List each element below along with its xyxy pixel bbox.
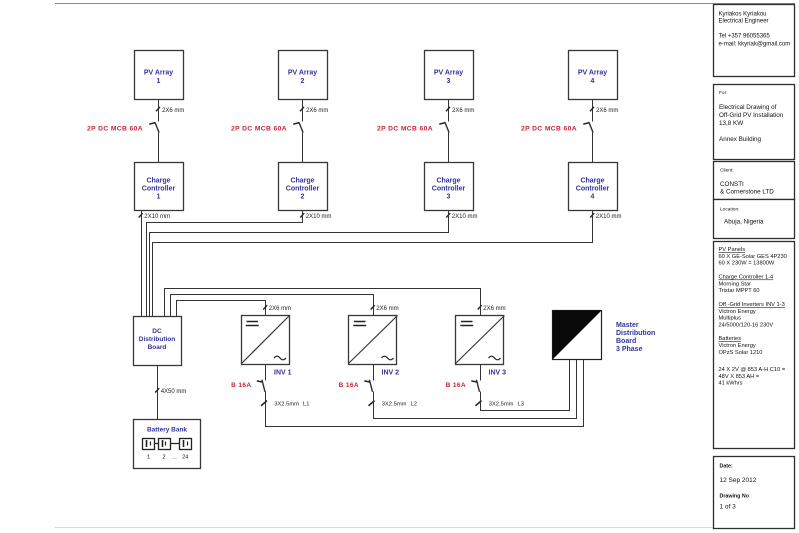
PV array P1 [135,51,184,100]
svg-text:1: 1 [147,455,150,461]
svg-text:Date:: Date: [720,464,733,470]
cable label 2X6mm INV2 input [371,305,399,312]
title block: date box [714,457,795,529]
wire PV3 to breaker [448,100,450,122]
charge controller CC2 [279,163,328,211]
svg-text:PV Array: PV Array [578,70,607,77]
svg-text:Board: Board [616,338,636,345]
svg-text:Abuja, Nigeria: Abuja, Nigeria [724,219,764,226]
svg-text:1 of 3: 1 of 3 [720,504,737,511]
wire PV4 to breaker [592,100,594,122]
label master distribution board [616,322,655,353]
svg-text:Distribution: Distribution [139,336,175,343]
svg-text:PV Panels: PV Panels [719,247,746,253]
svg-text:2P DC MCB 60A: 2P DC MCB 60A [521,126,577,133]
svg-text:...: ... [172,455,177,461]
svg-text:Controller: Controller [576,186,610,193]
svg-text:For:: For: [719,90,728,96]
inverter INV3 [456,316,505,365]
svg-text:Off -Grid Inverters INV 1-3: Off -Grid Inverters INV 1-3 [719,302,785,308]
svg-text:24 X 2V @ 853 A-H C10 =: 24 X 2V @ 853 A-H C10 = [719,367,786,373]
svg-text:4: 4 [591,78,595,85]
svg-text:INV 2: INV 2 [382,370,400,377]
svg-text:3: 3 [447,194,451,201]
svg-text:L1: L1 [303,402,309,408]
breaker 2P DC MCB 60A column 1 [149,122,159,133]
cable label 3X2.5mm L1 [261,401,309,408]
svg-text:2X10 mm: 2X10 mm [144,214,170,220]
svg-text:2X10 mm: 2X10 mm [596,214,622,220]
svg-text:4: 4 [591,194,595,201]
svg-text:2X10 mm: 2X10 mm [306,214,332,220]
breaker 2P DC MCB 60A column 3 [439,122,449,133]
svg-text:2X10 mm: 2X10 mm [452,214,478,220]
breaker B16A INV1 [257,380,265,392]
svg-text:Multiplus: Multiplus [719,316,742,322]
svg-text:3X2.5mm: 3X2.5mm [274,402,299,408]
wire PV1 to breaker [158,100,160,122]
svg-text:Annex Building: Annex Building [719,136,762,143]
PV array P3 [425,51,474,100]
svg-text:12 Sep 2012: 12 Sep 2012 [720,477,757,484]
svg-text:2X6 mm: 2X6 mm [269,306,291,312]
svg-text:60 X 230W = 13800W: 60 X 230W = 13800W [719,261,775,267]
svg-text:60 X GE-Solar GES 4P230: 60 X GE-Solar GES 4P230 [719,254,787,260]
wire INV2 output to MDB [374,360,577,419]
svg-text:CONSTI: CONSTI [720,181,744,188]
svg-text:Morning Star: Morning Star [719,281,752,287]
svg-text:INV 1: INV 1 [274,370,292,377]
svg-text:3X2.5mm: 3X2.5mm [489,402,514,408]
svg-text:3 Phase: 3 Phase [616,346,643,353]
battery bank [134,420,201,469]
svg-text:2X6 mm: 2X6 mm [162,108,184,114]
svg-text:Charge: Charge [146,178,170,185]
wire breaker to CC2 [302,133,304,163]
cable label 2X6mm column 1 [156,107,184,114]
svg-text:Charge Controller 1-4: Charge Controller 1-4 [719,275,774,281]
cable label 2X10mm CC3 [446,213,477,220]
svg-text:Master: Master [616,322,639,329]
sheet border bottom [55,527,795,529]
svg-text:Battery Bank: Battery Bank [147,427,187,434]
cable label 4X50mm [155,388,186,395]
master distribution board [553,311,602,360]
svg-text:2X6 mm: 2X6 mm [596,108,618,114]
svg-text:3X2.5mm: 3X2.5mm [382,402,407,408]
title block: engineer box [714,5,795,77]
svg-text:Electrical Engineer: Electrical Engineer [719,19,769,25]
svg-text:e-mail: kkyriak@gmail.com: e-mail: kkyriak@gmail.com [719,42,791,48]
wire DC board to INV2 rail [171,295,374,317]
svg-text:Client:: Client: [720,168,734,174]
cable label 2X6mm column 4 [590,107,618,114]
svg-text:B 16A: B 16A [339,382,359,389]
svg-text:2P DC MCB 60A: 2P DC MCB 60A [377,126,433,133]
svg-text:L2: L2 [411,402,417,408]
svg-text:B 16A: B 16A [231,382,251,389]
wire DC board to INV1 rail [177,301,266,317]
cable label 2X6mm column 2 [300,107,328,114]
svg-text:41 kWhrs: 41 kWhrs [719,381,743,387]
svg-text:Location:: Location: [720,207,739,213]
breaker B16A INV2 [364,380,372,392]
svg-text:Charge: Charge [290,178,314,185]
wire INV3 output to MDB [481,360,570,411]
svg-text:Kyriakos Kyriakou: Kyriakos Kyriakou [719,12,767,18]
inverter INV2 [349,316,398,365]
wire INV1 output to MDB [266,360,584,427]
svg-text:Distribution: Distribution [616,330,655,337]
breaker B16A INV3 [471,380,479,392]
svg-text:24: 24 [182,455,188,461]
charge controller CC1 [135,163,184,211]
svg-text:Controller: Controller [286,186,320,193]
wire INV1 to breaker [265,365,267,381]
svg-text:PV Array: PV Array [144,70,173,77]
breaker 2P DC MCB 60A column 4 [583,122,593,133]
svg-text:2: 2 [301,194,305,201]
svg-text:& Cornerstone LTD: & Cornerstone LTD [720,189,774,196]
wire DC board to battery bank [157,366,159,420]
svg-text:B 16A: B 16A [446,382,466,389]
svg-text:Tel +357 96055365: Tel +357 96055365 [719,34,771,40]
svg-text:Controller: Controller [432,186,466,193]
title block: client box [714,162,795,200]
charge controller CC4 [569,163,618,211]
svg-text:Electrical Drawing of: Electrical Drawing of [719,104,777,111]
svg-text:PV Array: PV Array [434,70,463,77]
svg-text:2: 2 [301,78,305,85]
DC distribution board [134,317,182,366]
svg-text:4X50 mm: 4X50 mm [161,389,187,395]
svg-text:1: 1 [157,78,161,85]
svg-text:OPzS Solar 1210: OPzS Solar 1210 [719,350,763,356]
svg-text:Drawing No: Drawing No [720,494,750,500]
cable label 2X10mm CC1 [139,213,170,220]
svg-text:2X6 mm: 2X6 mm [376,306,398,312]
cable label 3X2.5mm L3 [476,401,524,408]
svg-text:13,8 KW: 13,8 KW [719,120,743,127]
cable label 3X2.5mm L2 [369,401,417,408]
svg-text:2: 2 [162,455,165,461]
charge controller CC3 [425,163,474,211]
svg-text:L3: L3 [518,402,524,408]
svg-text:2X6 mm: 2X6 mm [306,108,328,114]
svg-text:Charge: Charge [580,178,604,185]
svg-text:Off-Grid PV Installation: Off-Grid PV Installation [719,112,784,119]
svg-text:PV Array: PV Array [288,70,317,77]
svg-text:DC: DC [152,328,162,335]
svg-text:INV 3: INV 3 [489,370,507,377]
wire breaker to CC4 [592,133,594,163]
svg-text:Tristar MPPT 60: Tristar MPPT 60 [719,288,760,294]
PV array P4 [569,51,618,100]
svg-text:Controller: Controller [142,186,176,193]
svg-text:Board: Board [148,344,167,351]
sheet border top [55,3,795,5]
wire DC board to INV1 rail [165,289,481,317]
svg-text:2P DC MCB 60A: 2P DC MCB 60A [231,126,287,133]
cable label 2X6mm column 3 [446,107,474,114]
wire CC2 to DC board [147,211,303,317]
svg-text:2X6 mm: 2X6 mm [483,306,505,312]
svg-text:Victron Energy: Victron Energy [719,309,756,315]
cable label 2X10mm CC4 [590,213,621,220]
wire CC3 to DC board [150,211,449,317]
title block: location box [714,200,795,239]
wire breaker to CC3 [448,133,450,163]
wire PV2 to breaker [302,100,304,122]
svg-text:3: 3 [447,78,451,85]
svg-text:Charge: Charge [436,178,460,185]
title block: equipment specs box [714,242,795,449]
svg-text:48V X 853 AH =: 48V X 853 AH = [719,374,760,380]
wire INV2 to breaker [373,365,375,381]
PV array P2 [279,51,328,100]
svg-text:2P DC MCB 60A: 2P DC MCB 60A [87,126,143,133]
breaker 2P DC MCB 60A column 2 [293,122,303,133]
inverter INV1 [242,316,290,365]
svg-text:1: 1 [157,194,161,201]
wire CC1 to DC board [141,211,143,317]
wire CC4 to DC board [153,211,593,317]
wire breaker to CC1 [158,133,160,163]
svg-text:Batteries: Batteries [719,336,742,342]
svg-text:24/5000/120-16 230V: 24/5000/120-16 230V [719,322,774,328]
wire INV3 to breaker [480,365,482,381]
svg-text:Victron Energy: Victron Energy [719,343,756,349]
svg-text:2X6 mm: 2X6 mm [452,108,474,114]
title block: project box [714,85,795,160]
cable label 2X10mm CC2 [300,213,331,220]
cable label 2X6mm INV3 input [478,305,506,312]
cable label 2X6mm INV1 input [263,305,291,312]
